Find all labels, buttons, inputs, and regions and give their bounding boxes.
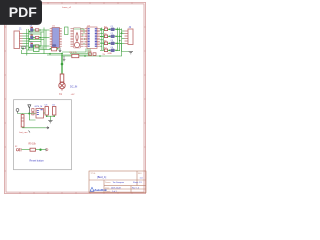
U2 pins left <box>71 29 74 47</box>
net bus right column <box>102 28 122 53</box>
wire reset left <box>22 149 31 151</box>
IC U1 <box>52 26 60 48</box>
antenna ANT1 <box>28 105 31 114</box>
arrow out <box>46 127 49 129</box>
junction dots rail <box>49 53 101 57</box>
svg-text:DC_IN: DC_IN <box>70 86 77 89</box>
frame ticks bottom <box>20 192 132 194</box>
J2 pins <box>125 31 129 44</box>
svg-text:2019-10-08: 2019-10-08 <box>111 187 121 189</box>
IC U4 small <box>50 44 59 51</box>
U3 pin names <box>88 28 97 47</box>
svg-text:+5V: +5V <box>71 94 75 96</box>
capacitor C2 <box>109 33 117 38</box>
bottom rail right <box>62 52 122 56</box>
resistor R2 <box>35 36 40 38</box>
junction dots <box>117 29 123 45</box>
svg-text:R9 10k: R9 10k <box>29 144 37 146</box>
wire caps <box>44 113 55 121</box>
tick mark <box>29 131 31 133</box>
resistor R9 <box>29 144 37 152</box>
DC jack X1 <box>59 74 65 91</box>
title block <box>89 171 146 193</box>
bottom band wires <box>22 50 63 54</box>
resistor R3 <box>35 45 40 47</box>
wire box top <box>18 113 36 120</box>
capacitor C6 <box>52 105 56 117</box>
svg-text:GPS_M: GPS_M <box>35 106 43 108</box>
U1 pins left <box>50 29 52 47</box>
ground GND1 <box>129 52 134 54</box>
Autodesk logo <box>90 187 107 192</box>
wire DC feed <box>61 56 63 74</box>
capacitor C5 <box>45 105 49 117</box>
wire staircase left of U3 <box>47 49 90 56</box>
svg-text:Rev: 1.0: Rev: 1.0 <box>132 187 139 189</box>
svg-text:S2: S2 <box>15 146 17 148</box>
resistor R7 <box>104 48 108 52</box>
subcircuit box <box>14 100 72 170</box>
capacitor C4 <box>109 47 117 52</box>
wire row2 right <box>100 35 122 37</box>
svg-text:bat_con: bat_con <box>20 131 29 134</box>
pad right <box>46 148 48 151</box>
resistor R4 <box>104 27 108 31</box>
wire U2-U3 links <box>83 32 85 45</box>
svg-text:R10: R10 <box>88 51 93 53</box>
svg-text:Reset button: Reset button <box>30 160 45 163</box>
transistor Q1 <box>29 26 35 33</box>
resistor R8 <box>70 52 79 58</box>
reset row: pad left <box>15 146 21 151</box>
wire battery out <box>23 126 46 129</box>
PDF badge <box>0 0 42 25</box>
svg-text:Tim Sampson: Tim Sampson <box>113 182 125 184</box>
U3 pins right <box>97 29 100 47</box>
transistor Q3 <box>29 42 35 49</box>
frame border <box>5 2 146 193</box>
connector J2 <box>128 26 133 45</box>
transistor Q2 <box>29 33 35 40</box>
IC U3 <box>87 25 97 48</box>
frame ticks left <box>5 27 7 171</box>
svg-text:1 of 1: 1 of 1 <box>112 191 117 193</box>
pushbutton S2 <box>22 47 26 50</box>
vertical bus wires left <box>27 29 29 56</box>
capacitor C3 <box>109 40 117 45</box>
switch S3 green box <box>34 45 40 52</box>
resistor R1 <box>35 29 40 31</box>
svg-text:[Bed_1]: [Bed_1] <box>97 175 107 179</box>
switch S1 green box <box>65 27 69 35</box>
title block texts <box>91 173 144 193</box>
ground GND2 <box>63 56 66 62</box>
wire bus from J1 <box>23 34 31 47</box>
module U2 <box>74 28 81 49</box>
svg-text:Drawn:: Drawn: <box>105 181 111 184</box>
capacitor C1 <box>109 26 117 31</box>
svg-text:Laser_v2: Laser_v2 <box>62 6 72 9</box>
net arrow A1 <box>59 48 61 52</box>
wire staircase right of U3 <box>74 29 104 51</box>
svg-text:TITLE:: TITLE: <box>91 173 97 175</box>
wire row1 right <box>100 28 122 30</box>
svg-text:GND: GND <box>108 53 113 55</box>
U2 pins right <box>81 29 84 47</box>
svg-text:Sheet: 1/1: Sheet: 1/1 <box>133 181 142 184</box>
wires middle columns <box>29 28 50 54</box>
svg-text:J2: J2 <box>129 26 132 29</box>
resistor R5 <box>104 34 108 38</box>
svg-text:X1: X1 <box>59 93 63 96</box>
resistor R10 <box>88 51 96 55</box>
svg-text:J1: J1 <box>19 28 22 31</box>
svg-text:PDF: PDF <box>9 4 37 20</box>
power node circle <box>16 109 19 114</box>
U1 pins right <box>60 29 62 47</box>
svg-text:R8 4.7k: R8 4.7k <box>70 52 78 54</box>
connector J1 <box>14 28 22 49</box>
battery BT1 <box>20 115 29 135</box>
node pad DC <box>61 63 64 66</box>
resistor R6 <box>104 41 108 45</box>
frame ticks top <box>20 2 132 4</box>
svg-text:1.0: 1.0 <box>140 178 144 180</box>
ground GND3 <box>48 121 52 123</box>
U3 pins left <box>85 29 88 47</box>
DC jack labels <box>59 86 77 96</box>
J1 pins <box>20 34 23 47</box>
wire row4 right <box>100 49 120 51</box>
wire row3 right <box>100 42 122 44</box>
wire J2 feed <box>120 31 129 52</box>
frame ticks right <box>144 27 146 171</box>
svg-text:REV:: REV: <box>138 173 142 175</box>
wire reset right <box>36 149 47 151</box>
IC U5 gps <box>32 106 44 118</box>
svg-text:AutoDsk: AutoDsk <box>94 188 107 192</box>
